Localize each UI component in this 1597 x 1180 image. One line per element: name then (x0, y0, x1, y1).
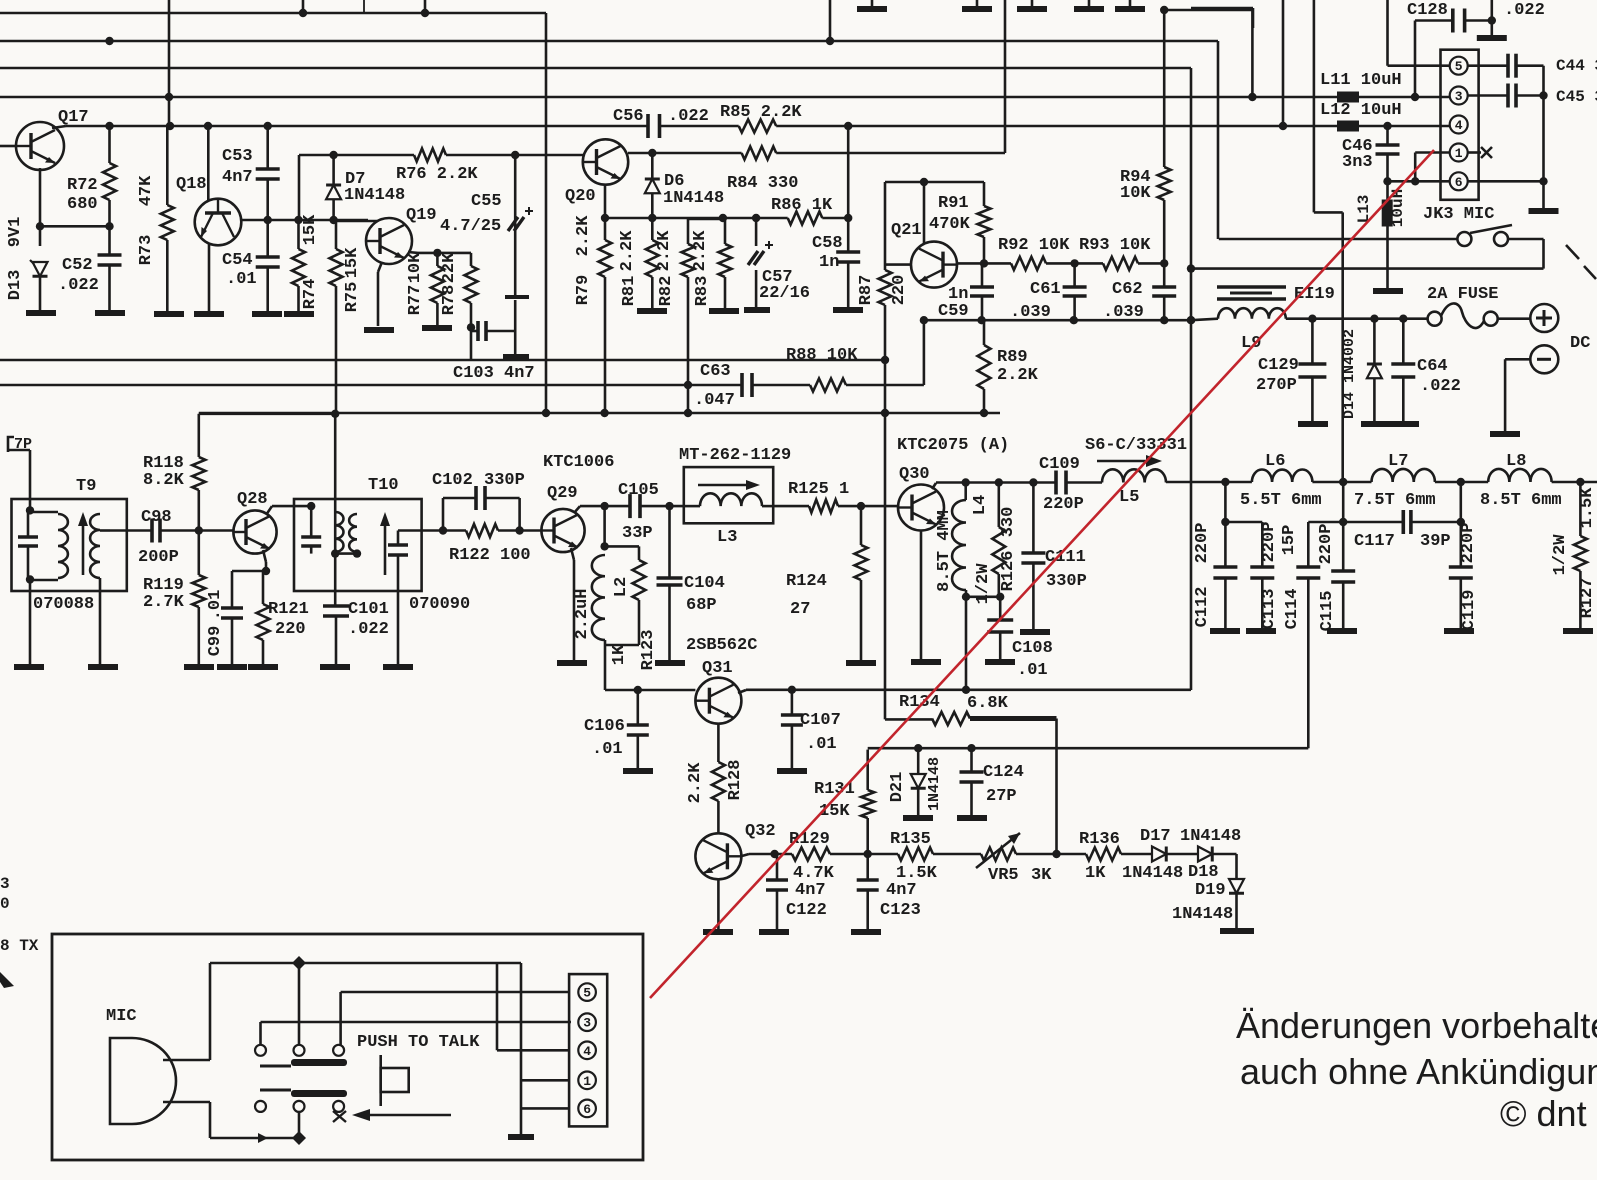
transistor Q17 (16, 122, 64, 170)
svg-text:.01: .01 (226, 270, 257, 289)
svg-text:Änderungen vorbehalte: Änderungen vorbehalte (1236, 1005, 1597, 1046)
svg-text:15P: 15P (1280, 525, 1299, 556)
wire (1167, 853, 1198, 856)
resistor R92 (1011, 257, 1046, 270)
wire pin6 line (1388, 180, 1450, 183)
svg-text:R89: R89 (997, 348, 1028, 367)
wire R118 feed (199, 412, 335, 415)
wire Q18 base (207, 126, 210, 200)
node (1052, 850, 1060, 858)
svg-text:JK3 MIC: JK3 MIC (1423, 205, 1494, 224)
ground C107 (777, 768, 807, 774)
transistor Q28 (233, 510, 276, 553)
transformer T10 box (294, 499, 422, 591)
svg-text:1.5K: 1.5K (1578, 487, 1597, 529)
svg-text:C102: C102 (432, 471, 473, 490)
svg-text:D18: D18 (1188, 863, 1219, 882)
node (962, 478, 970, 486)
svg-text:Q19: Q19 (406, 206, 437, 225)
capacitor C122 (776, 854, 779, 880)
wire y268 line (1191, 267, 1544, 270)
wire R87 node vertical (884, 182, 887, 270)
wire corner (1213, 853, 1237, 856)
svg-text:KTC2075 (A): KTC2075 (A) (897, 436, 1009, 455)
wire (1498, 317, 1530, 320)
ground C108 (985, 659, 1015, 665)
svg-text:220P: 220P (1317, 524, 1336, 565)
wire (1016, 853, 1086, 856)
resistor R83 (724, 218, 727, 244)
svg-text:T9: T9 (76, 477, 96, 496)
svg-text:1N4148: 1N4148 (1180, 827, 1241, 846)
ground C113 (1246, 628, 1276, 634)
svg-text:R84 330: R84 330 (727, 174, 798, 193)
switch contacts lower (255, 1101, 266, 1112)
svg-text:1K: 1K (610, 644, 629, 665)
node (1488, 16, 1496, 24)
svg-text:3: 3 (0, 875, 10, 893)
wire (1121, 853, 1152, 856)
node (331, 410, 339, 418)
X mark (333, 1111, 346, 1122)
transistor Q18 (195, 199, 242, 246)
svg-text:MIC: MIC (106, 1007, 137, 1026)
wire pin3 line (1468, 94, 1508, 97)
wire Q17-C56-R85-L12 line (66, 125, 648, 128)
capacitor C117 (1343, 521, 1403, 524)
svg-text:10K: 10K (1120, 184, 1151, 203)
pin 6 (1450, 172, 1468, 190)
svg-text:4n7: 4n7 (795, 881, 826, 900)
wire pin1 inset (521, 1079, 569, 1082)
svg-text:200P: 200P (138, 548, 179, 567)
wire Q21 collector (923, 182, 926, 243)
node (920, 316, 928, 324)
ground C104 (655, 660, 685, 666)
ground Q29 (557, 660, 587, 666)
node (433, 249, 441, 257)
node (1539, 91, 1547, 99)
svg-text:C122: C122 (786, 901, 827, 920)
wire C45 right (1516, 94, 1544, 97)
capacitor C124 (967, 744, 975, 752)
inductor L9 (1218, 308, 1286, 319)
svg-text:C56: C56 (613, 107, 644, 126)
wire inset right drop (520, 963, 523, 1134)
svg-text:5: 5 (583, 986, 591, 1001)
inductor L2 (592, 555, 605, 640)
svg-text:Q18: Q18 (176, 175, 207, 194)
node (601, 214, 609, 222)
capacitor C58 (847, 126, 850, 218)
wire stub (829, 0, 832, 41)
svg-text:39P: 39P (1420, 532, 1451, 551)
svg-text:220P: 220P (1193, 523, 1212, 564)
node (665, 502, 673, 510)
transformer EI19 (1217, 285, 1286, 288)
inductor L11 (1337, 92, 1359, 103)
svg-text:22K: 22K (440, 252, 459, 283)
inductor L12 (1337, 121, 1359, 132)
wire T-branch (1341, 212, 1344, 481)
wire to Q30 (838, 505, 898, 508)
svg-text:L7: L7 (1388, 452, 1408, 471)
svg-text:6: 6 (1455, 175, 1463, 190)
resistor R122 (443, 529, 466, 532)
T9 primary winding (58, 514, 68, 578)
svg-text:10K: 10K (406, 252, 425, 283)
svg-text:auch ohne Ankündigung: auch ohne Ankündigung (1240, 1051, 1597, 1092)
svg-text:C64: C64 (1417, 357, 1448, 376)
svg-text:D17: D17 (1140, 827, 1171, 846)
resistor R121 (262, 571, 265, 604)
svg-text:.022: .022 (668, 107, 709, 126)
svg-text:.022: .022 (1504, 1, 1545, 20)
wire Q20 collector line (628, 152, 742, 155)
svg-text:1N4148: 1N4148 (663, 189, 724, 208)
capacitor C114 (1308, 521, 1343, 524)
svg-text:C54: C54 (222, 251, 253, 270)
T10 winding left (335, 512, 343, 552)
ground D14 (1361, 421, 1391, 427)
wire (830, 853, 898, 856)
wire Q28 emitter (263, 550, 266, 562)
resistor R124 (857, 502, 865, 510)
arrow to X (366, 1114, 451, 1117)
svg-text:2A FUSE: 2A FUSE (1427, 285, 1498, 304)
svg-text:220P: 220P (1459, 523, 1478, 564)
svg-text:DC: DC (1570, 334, 1590, 353)
wire stub faint (363, 0, 365, 13)
wire Q31 right (738, 690, 746, 693)
node (195, 526, 203, 534)
wire Q31 collector (717, 724, 720, 762)
wire upper contact drop (298, 963, 301, 1045)
T10 arrow (384, 520, 387, 575)
transistor Q32 (695, 833, 741, 879)
capacitor C111 (1032, 483, 1035, 554)
wire pin5 inset (341, 991, 569, 994)
node (788, 686, 796, 694)
wire T10 out (422, 529, 443, 532)
svg-text:R126: R126 (999, 551, 1018, 592)
node (1383, 177, 1391, 185)
svg-text:C104: C104 (684, 574, 725, 593)
svg-text:R83: R83 (693, 276, 712, 307)
svg-text:1N4148: 1N4148 (344, 186, 405, 205)
svg-text:L2: L2 (612, 577, 631, 597)
wire L6/L7/L8 line (1312, 481, 1371, 484)
wire down to Q31 line (965, 597, 968, 690)
svg-text:R86 1K: R86 1K (771, 196, 833, 215)
inset pin 5 (578, 983, 596, 1001)
inductor L6 (1252, 469, 1313, 482)
wire to R125 (773, 505, 809, 508)
resistor R93 (1103, 257, 1138, 270)
svg-text:Q17: Q17 (58, 108, 89, 127)
svg-text:C109: C109 (1039, 455, 1080, 474)
svg-text:8.5T 6mm: 8.5T 6mm (1480, 491, 1562, 510)
inset pin 4 (578, 1042, 596, 1060)
wire Q21 base (885, 263, 911, 266)
svg-text:.022: .022 (348, 620, 389, 639)
svg-text:.01: .01 (806, 735, 837, 754)
MIC PTT inset box (52, 934, 643, 1160)
svg-text:R91: R91 (938, 194, 969, 213)
wire corner to R88 line (923, 320, 926, 385)
svg-text:3K: 3K (1031, 866, 1052, 885)
svg-text:D14 1N4002: D14 1N4002 (1341, 329, 1358, 419)
wire R76 line (299, 154, 414, 157)
ground R83 (709, 308, 739, 314)
node (329, 151, 337, 159)
wire Q29 collector (574, 506, 580, 513)
wire Q30 emitter (920, 531, 923, 660)
capacitor C98 (150, 519, 154, 543)
resistor R129 (792, 848, 830, 861)
wire C44 col ground (1542, 181, 1545, 208)
wire pin4 inset (497, 1049, 569, 1052)
svg-text:C123: C123 (880, 901, 921, 920)
red revision line (650, 150, 1434, 998)
node (684, 381, 692, 389)
svg-text:VR5: VR5 (988, 866, 1019, 885)
node (292, 956, 306, 970)
svg-text:C119: C119 (1460, 590, 1479, 631)
svg-text:C106: C106 (584, 717, 625, 736)
svg-text:MT-262-1129: MT-262-1129 (679, 446, 791, 465)
svg-text:2.2uH: 2.2uH (573, 588, 592, 639)
ground C99 (217, 664, 247, 670)
capacitor C107 (791, 690, 794, 715)
svg-text:3: 3 (583, 1016, 591, 1031)
svg-text:1.5K: 1.5K (896, 864, 938, 883)
wire mic bottom lead (163, 1101, 210, 1104)
L3 leads (684, 505, 700, 508)
transistor Q29 (541, 509, 584, 552)
ground Q19 (364, 327, 394, 333)
svg-text:220: 220 (275, 620, 306, 639)
variable resistor VR5 (981, 848, 1016, 861)
svg-text:070088: 070088 (33, 595, 94, 614)
resistor R76 (414, 149, 446, 162)
svg-text:R124: R124 (786, 572, 827, 591)
resistor R94 (1163, 10, 1166, 167)
ground T10 cap (383, 664, 413, 670)
svg-text:C112: C112 (1193, 587, 1212, 628)
wire Q17 base (0, 145, 16, 148)
svg-text:Q28: Q28 (237, 490, 268, 509)
transistor Q31 (695, 678, 741, 724)
node (467, 323, 475, 331)
ground D19 (1220, 928, 1254, 934)
connector 7P (8, 437, 14, 452)
svg-text:2.2K: 2.2K (655, 230, 674, 272)
svg-text:1n: 1n (819, 253, 839, 272)
svg-text:Q31: Q31 (702, 659, 733, 678)
svg-text:.01: .01 (206, 590, 225, 621)
svg-text:R74: R74 (301, 279, 320, 310)
wire Q18 emitter (208, 243, 211, 311)
wire bus y413 (199, 412, 1000, 415)
svg-text:330: 330 (999, 507, 1018, 538)
wire supply drop (1004, 0, 1007, 153)
svg-text:C113: C113 (1260, 589, 1279, 630)
inductor L8 (1488, 469, 1551, 482)
svg-text:R134: R134 (899, 693, 940, 712)
dashed diagonal mark (1566, 245, 1579, 259)
wire T9 bottom-left to ground (29, 580, 32, 664)
svg-text:R81: R81 (620, 276, 639, 307)
inductor L3 (700, 493, 762, 506)
inset pin 1 (578, 1072, 596, 1090)
capacitor C104 (668, 506, 671, 578)
svg-text:15K: 15K (301, 214, 320, 245)
resistor R85 (739, 120, 777, 133)
svg-text:C108: C108 (1012, 639, 1053, 658)
bandpass L3 box (684, 467, 773, 523)
svg-text:C63: C63 (700, 362, 731, 381)
ground C128 (1477, 35, 1507, 41)
switch contacts upper (255, 1045, 266, 1056)
capacitor C53 (266, 126, 269, 169)
ground L13 (1373, 288, 1403, 294)
diode D7 (332, 155, 335, 185)
svg-text:070090: 070090 (409, 595, 470, 614)
wire C128 drop (1414, 21, 1417, 98)
svg-text:C103 4n7: C103 4n7 (453, 364, 535, 383)
svg-text:R87: R87 (857, 275, 876, 306)
svg-text:R122 100: R122 100 (449, 546, 531, 565)
svg-text:Q21: Q21 (891, 221, 922, 240)
capacitor C112 (1224, 482, 1227, 522)
svg-text:L12 10uH: L12 10uH (1320, 101, 1402, 120)
svg-text:L5: L5 (1119, 488, 1139, 507)
T9 arrow (82, 520, 85, 575)
svg-text:C105: C105 (618, 481, 659, 500)
node (292, 1131, 306, 1145)
ground C119 (1444, 628, 1474, 634)
svg-text:47K: 47K (137, 175, 156, 206)
wire Q32 emitter (717, 879, 720, 929)
svg-text:.047: .047 (694, 391, 735, 410)
svg-text:C115: C115 (1318, 591, 1337, 632)
svg-text:R93 10K: R93 10K (1079, 236, 1151, 255)
diode D17 (1152, 847, 1166, 862)
cursor arrow (0, 972, 14, 988)
wire Q21 top line (885, 181, 984, 184)
diode D18 (1198, 847, 1212, 862)
svg-text:L8: L8 (1506, 452, 1526, 471)
resistor R131 (861, 790, 874, 818)
transistor Q21 (911, 242, 957, 288)
DC plus terminal (1530, 304, 1558, 332)
T9 pins (26, 506, 34, 514)
microphone symbol (110, 1038, 176, 1124)
ground C129 (1298, 421, 1328, 427)
wire bus y360 (0, 359, 885, 362)
svg-text:C114: C114 (1283, 589, 1302, 630)
T10 pin (307, 502, 315, 510)
svg-text:.01: .01 (592, 740, 623, 759)
wire to Q29 (520, 529, 541, 532)
capacitor C61 (1073, 263, 1076, 287)
svg-text:5: 5 (1455, 59, 1463, 74)
capacitor C128 (1415, 19, 1453, 22)
node (980, 259, 988, 267)
wire pin5 to C44 (1468, 64, 1508, 67)
svg-text:PUSH TO TALK: PUSH TO TALK (357, 1033, 480, 1052)
node (600, 502, 608, 510)
connector pins inset box (569, 974, 607, 1126)
svg-text:33P: 33P (622, 524, 653, 543)
resistor R75 (335, 220, 338, 249)
wire stub (424, 0, 427, 13)
ground C54 (252, 311, 282, 317)
wire L5 to L6 (1166, 481, 1252, 484)
svg-text:C107: C107 (800, 711, 841, 730)
svg-text:1N4148: 1N4148 (1172, 905, 1233, 924)
transformer T9 box (12, 499, 127, 591)
capacitor C129 (1311, 319, 1314, 364)
ground C101 (320, 664, 350, 670)
svg-text:330P: 330P (1046, 572, 1087, 591)
wire pin5 line (1388, 64, 1450, 67)
PTT power switch (1457, 232, 1471, 246)
svg-text:6.8K: 6.8K (967, 694, 1009, 713)
wire T9 out (110, 529, 152, 532)
inset pin 3 (578, 1013, 596, 1031)
wire stub (302, 0, 305, 13)
svg-text:8.5T 4MM: 8.5T 4MM (935, 510, 954, 592)
svg-text:L6: L6 (1265, 452, 1285, 471)
svg-text:.01: .01 (1017, 661, 1048, 680)
capacitor C44 (1506, 54, 1510, 78)
inductor L13 (1386, 181, 1389, 199)
svg-text:4: 4 (583, 1044, 591, 1059)
resistor R77 (436, 253, 439, 266)
svg-text:6: 6 (583, 1102, 591, 1117)
wire Q32 base line (741, 854, 749, 856)
wire bus line 1 (0, 12, 546, 15)
svg-text:D21: D21 (888, 772, 907, 803)
svg-text:R127: R127 (1578, 578, 1597, 619)
ground Q32 (703, 929, 733, 935)
wire (640, 505, 684, 508)
ground R73 (154, 311, 184, 317)
node (980, 409, 988, 417)
T9 secondary winding (90, 514, 100, 578)
capacitor C115 (1342, 482, 1345, 522)
wire inset top line (210, 962, 521, 965)
svg-text:R78: R78 (440, 285, 459, 316)
svg-text:R75: R75 (343, 282, 362, 313)
svg-text:R79: R79 (574, 275, 593, 306)
wire Q19 collector line (408, 251, 418, 254)
svg-text:3n3: 3n3 (1342, 153, 1373, 172)
node bus4 (1248, 93, 1256, 101)
svg-text:0: 0 (0, 895, 10, 913)
svg-text:C44 3: C44 3 (1556, 57, 1597, 75)
wire Q28 collector (266, 506, 272, 515)
ground R127 (1563, 628, 1593, 634)
node (1308, 315, 1316, 323)
resistor R134 bridge (885, 718, 932, 721)
capacitor C119 (1460, 482, 1463, 522)
resistor R123 (605, 545, 639, 548)
capacitor C57 electrolytic (755, 218, 758, 246)
resistor R72 (108, 126, 111, 163)
